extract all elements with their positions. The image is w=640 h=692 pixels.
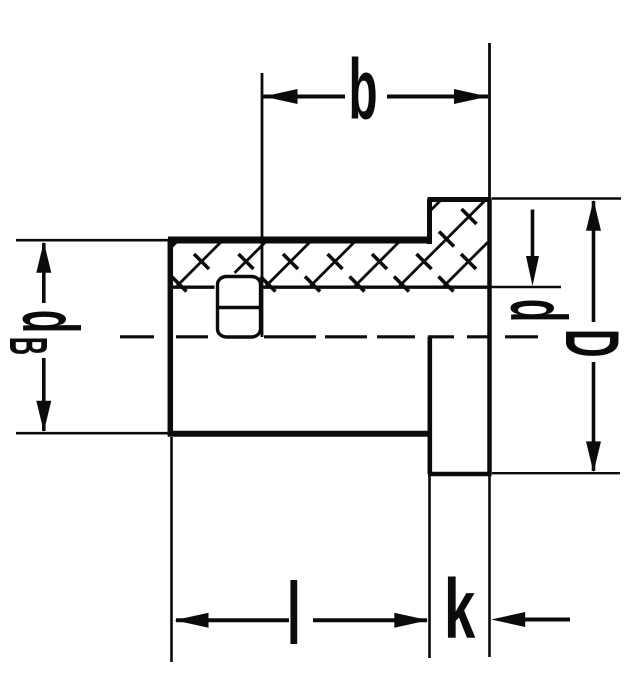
section hatching of hub <box>170 199 488 286</box>
hub barrel top outline <box>168 237 431 244</box>
dimension b arrow left <box>264 89 298 104</box>
dimension dB arrow down <box>36 401 51 432</box>
dimension b arrow right <box>454 89 488 104</box>
extension line dB top <box>16 239 170 242</box>
flange step vertical <box>427 199 432 244</box>
dimension l arrow left <box>175 613 209 628</box>
flange right face <box>487 198 492 476</box>
dimension l line left segment <box>176 618 289 622</box>
bore line left of set screw <box>170 286 215 289</box>
dimension D line upper segment <box>592 201 596 322</box>
dimension dB line upper segment <box>42 243 46 303</box>
bore line right of set screw <box>263 286 489 289</box>
svg-text:k: k <box>444 563 475 657</box>
extension line k left / l right <box>428 476 431 658</box>
flange top outline <box>428 197 491 202</box>
center line (axis) <box>120 335 154 338</box>
dimension D arrow down <box>586 441 601 472</box>
hub barrel bottom outline <box>168 431 431 437</box>
svg-text:D: D <box>550 329 635 358</box>
flange left face (below axis) <box>427 337 432 474</box>
hatch tick marks <box>172 209 477 292</box>
hub left end face <box>168 239 174 437</box>
extension line b right / D upper <box>488 43 491 198</box>
extension line k right <box>488 476 491 657</box>
extension line b left (through section to axis) <box>261 73 264 337</box>
dimension k tail line right <box>520 618 570 622</box>
dimension b line left segment <box>263 95 345 99</box>
dimension dB arrow up <box>36 242 51 273</box>
extension line D bottom <box>492 472 620 474</box>
extension line dB bottom <box>16 432 170 435</box>
svg-text:d: d <box>493 299 583 322</box>
set screw mid line <box>218 306 261 309</box>
dimension dB line lower segment <box>42 358 46 431</box>
dimension k arrow right (from outside) <box>491 612 525 627</box>
dimension d arrow down <box>526 256 539 286</box>
extension line l left <box>170 437 173 662</box>
extension line D top <box>492 197 621 199</box>
dimension D line lower segment <box>592 362 596 471</box>
dimension b line right segment <box>387 95 488 99</box>
set screw body <box>218 277 261 338</box>
dimension l arrow right / k arrow left <box>394 613 428 628</box>
dimension l line right segment <box>313 618 427 622</box>
svg-text:l: l <box>287 565 301 664</box>
dimension d leader line <box>531 210 535 259</box>
extension line d (bore) <box>491 286 561 289</box>
dimension D arrow up <box>586 200 601 231</box>
flange bottom outline <box>428 472 492 477</box>
svg-text:b: b <box>349 42 378 137</box>
